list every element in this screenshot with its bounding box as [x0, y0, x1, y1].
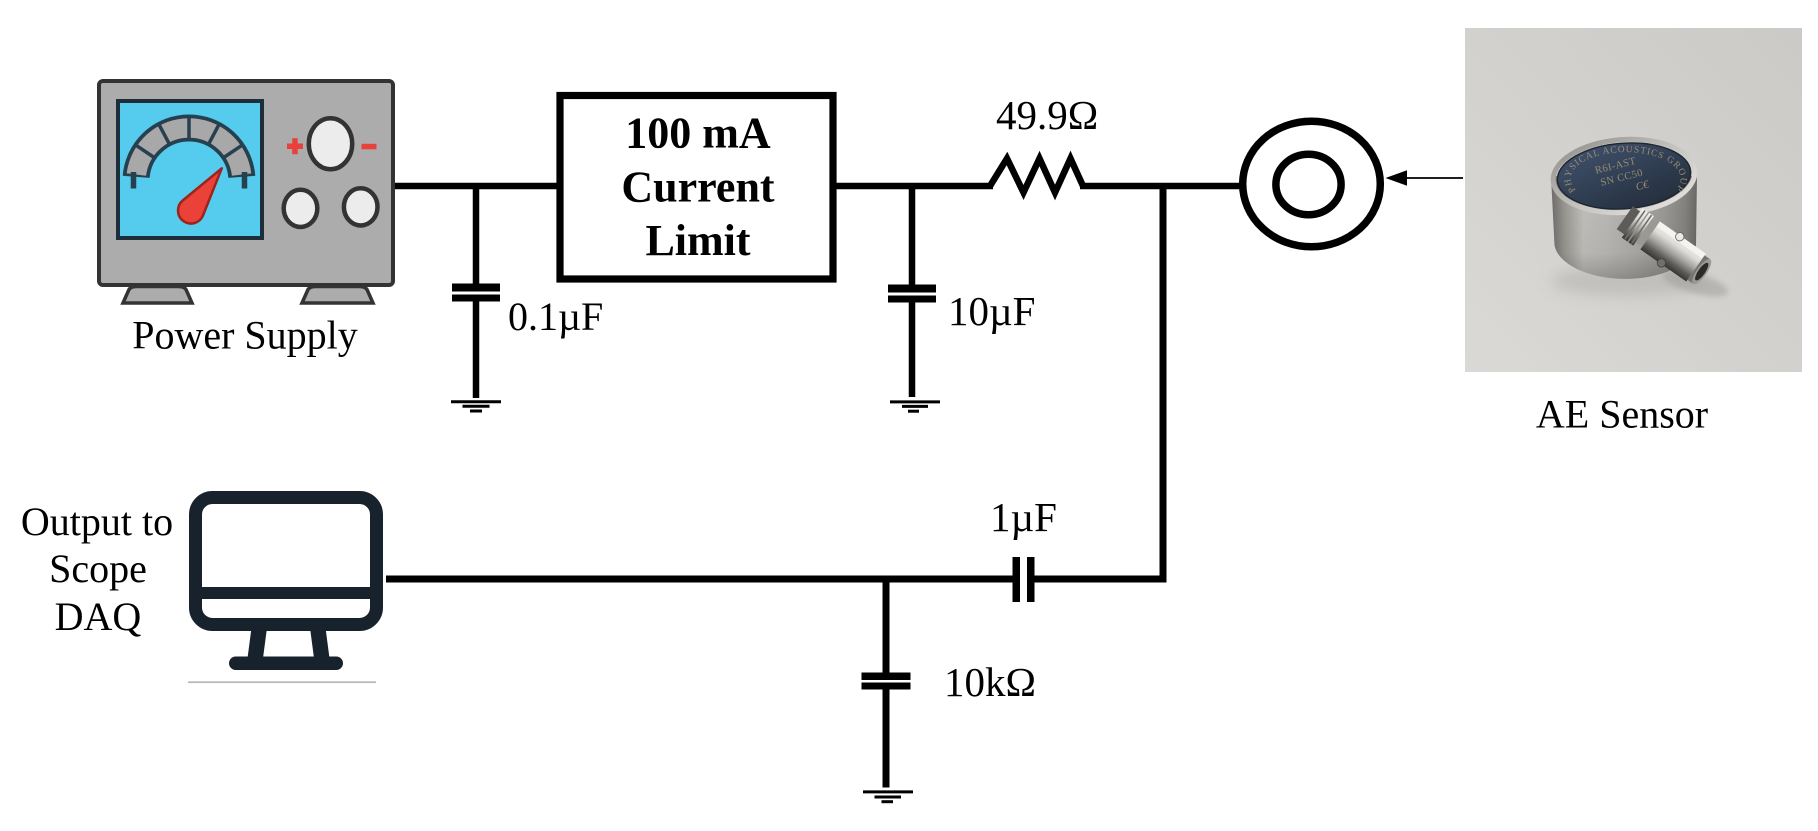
svg-text:Limit: Limit: [645, 216, 750, 265]
svg-text:1µF: 1µF: [990, 494, 1057, 540]
svg-text:Output to: Output to: [21, 499, 173, 544]
svg-text:100 mA: 100 mA: [625, 109, 771, 158]
svg-text:Current: Current: [621, 163, 775, 212]
svg-text:Power Supply: Power Supply: [132, 313, 358, 358]
svg-text:0.1µF: 0.1µF: [508, 294, 603, 339]
svg-text:49.9Ω: 49.9Ω: [996, 92, 1098, 138]
svg-text:10kΩ: 10kΩ: [944, 659, 1036, 705]
svg-text:AE Sensor: AE Sensor: [1536, 392, 1708, 437]
svg-text:10µF: 10µF: [948, 288, 1035, 334]
svg-text:DAQ: DAQ: [55, 594, 142, 639]
svg-text:Scope: Scope: [49, 546, 147, 591]
